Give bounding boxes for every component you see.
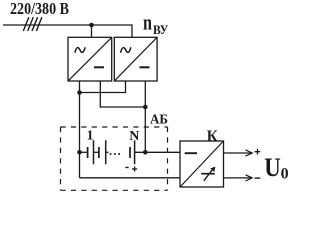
converter К — [180, 141, 224, 187]
label: mains voltage 220/380 В — [10, 0, 69, 18]
battery box АБ (dashed) — [61, 127, 168, 190]
output polarity + — [255, 149, 261, 155]
output polarity - — [255, 177, 261, 179]
wire: three-phase input line — [3, 25, 132, 37]
rectifier ВУ2 — [114, 37, 157, 81]
wire: output negative with arrow — [224, 175, 253, 181]
svg-text:АБ: АБ — [150, 112, 168, 127]
svg-text:220/380 В: 220/380 В — [10, 0, 69, 18]
svg-text:n: n — [143, 10, 152, 35]
wire: left vertical from rectifier 1 down to lower bus — [79, 81, 81, 178]
multi-wire slashes — [23, 17, 42, 31]
wire: rectifier outputs negative bus — [100, 81, 145, 107]
rectifier ВУ1 — [68, 37, 112, 81]
svg-text:К: К — [207, 128, 218, 145]
label 1 — [87, 129, 94, 144]
node: input junction — [89, 23, 94, 28]
wire: lower bus to converter — [80, 177, 181, 179]
svg-text:U: U — [264, 153, 281, 182]
battery cell 1 — [88, 140, 94, 164]
node: battery right junction — [143, 150, 148, 155]
wire: output positive with arrow — [224, 150, 253, 156]
ellipsis dots — [110, 153, 121, 155]
battery polarity marks - + — [125, 166, 137, 171]
node: negative bus junction — [143, 105, 148, 110]
label АБ — [150, 112, 168, 127]
label n_ВУ — [143, 10, 168, 38]
converter regulation arrowhead — [210, 167, 215, 173]
wire: stub to rectifier 1 — [91, 25, 93, 37]
svg-text:0: 0 — [281, 165, 288, 182]
wire: rectifier 2 right output down to battery N — [144, 81, 146, 152]
node: battery left junction — [77, 150, 82, 155]
label К — [207, 128, 218, 145]
wire: rectifier outputs positive bus — [80, 81, 126, 93]
svg-text:1: 1 — [87, 129, 94, 144]
node: positive bus junction — [77, 90, 82, 95]
battery cell 2 — [99, 140, 106, 164]
label U0 — [264, 153, 288, 183]
svg-text:N: N — [129, 129, 139, 144]
svg-text:ВУ: ВУ — [153, 23, 168, 37]
label N — [129, 129, 139, 144]
wire: battery chain — [80, 151, 181, 153]
battery cell N — [130, 140, 135, 164]
